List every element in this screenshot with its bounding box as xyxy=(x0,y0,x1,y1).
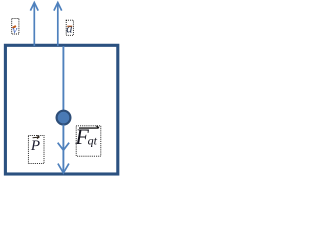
label v (dashed box with vector v) xyxy=(12,18,19,35)
svg-text:qt: qt xyxy=(88,133,98,147)
acceleration arrow a (up, right) xyxy=(54,3,62,46)
svg-text:v: v xyxy=(12,24,17,36)
string (wire from ceiling to ball) xyxy=(62,46,64,111)
ball xyxy=(57,111,71,125)
inertial force arrowhead F_qt (long down arrow) xyxy=(58,164,69,173)
svg-text:P: P xyxy=(30,138,40,154)
velocity arrow v (up, left) xyxy=(30,3,38,46)
label F_qt (dashed box with vector F and subscript qt) xyxy=(74,124,100,156)
force shaft below ball xyxy=(62,125,64,172)
elevator car box xyxy=(5,45,117,174)
weight arrowhead P (short down arrow) xyxy=(58,143,69,151)
label a (dashed box with vector a) xyxy=(66,20,73,35)
svg-text:a: a xyxy=(66,22,72,36)
label P (dashed box with vector P) xyxy=(28,135,44,163)
